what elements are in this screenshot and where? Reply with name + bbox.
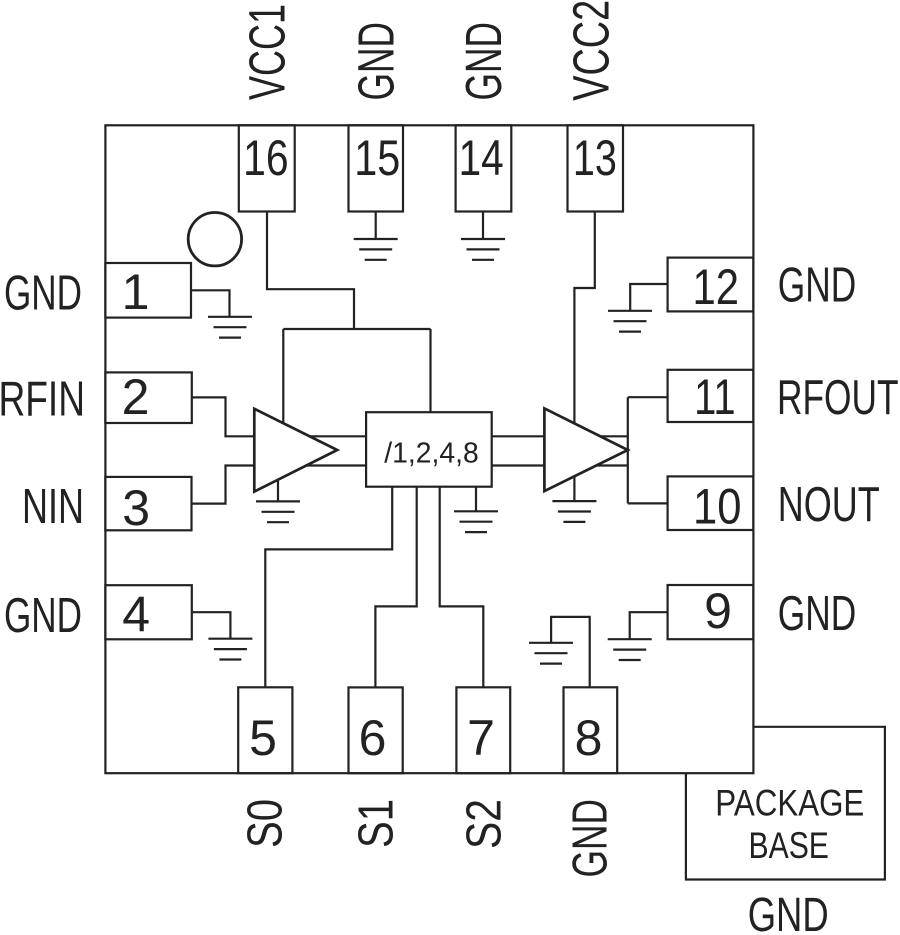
svg-text:5: 5	[249, 710, 277, 766]
svg-text:6: 6	[359, 710, 387, 766]
svg-text:9: 9	[704, 583, 732, 639]
svg-text:10: 10	[693, 479, 742, 535]
svg-text:VCC1: VCC1	[238, 4, 295, 100]
svg-text:PACKAGE: PACKAGE	[715, 783, 864, 824]
svg-text:S1: S1	[350, 799, 404, 848]
svg-text:S2: S2	[458, 799, 512, 849]
svg-text:RFOUT: RFOUT	[777, 371, 899, 425]
svg-text:S0: S0	[239, 799, 293, 848]
svg-text:12: 12	[693, 259, 740, 315]
svg-text:GND: GND	[347, 22, 404, 101]
svg-text:VCC2: VCC2	[563, 0, 620, 101]
svg-text:GND: GND	[455, 22, 512, 101]
svg-text:NOUT: NOUT	[778, 478, 880, 532]
svg-text:15: 15	[354, 130, 400, 186]
svg-text:7: 7	[467, 710, 495, 766]
svg-text:GND: GND	[778, 587, 857, 641]
svg-text:8: 8	[575, 710, 603, 766]
svg-text:BASE: BASE	[748, 825, 829, 866]
svg-text:4: 4	[122, 586, 150, 642]
svg-text:16: 16	[243, 130, 289, 186]
svg-text:3: 3	[122, 480, 150, 536]
svg-text:/1,2,4,8: /1,2,4,8	[384, 438, 479, 470]
svg-text:1: 1	[122, 264, 150, 320]
svg-text:NIN: NIN	[22, 480, 84, 534]
svg-text:2: 2	[122, 369, 150, 425]
svg-text:11: 11	[694, 369, 736, 425]
svg-text:13: 13	[573, 130, 617, 186]
svg-text:GND: GND	[748, 888, 829, 935]
svg-text:GND: GND	[4, 267, 82, 321]
svg-text:14: 14	[459, 130, 504, 186]
svg-text:RFIN: RFIN	[0, 372, 85, 426]
svg-text:GND: GND	[4, 589, 82, 643]
svg-text:GND: GND	[778, 259, 857, 313]
svg-text:GND: GND	[564, 799, 618, 878]
